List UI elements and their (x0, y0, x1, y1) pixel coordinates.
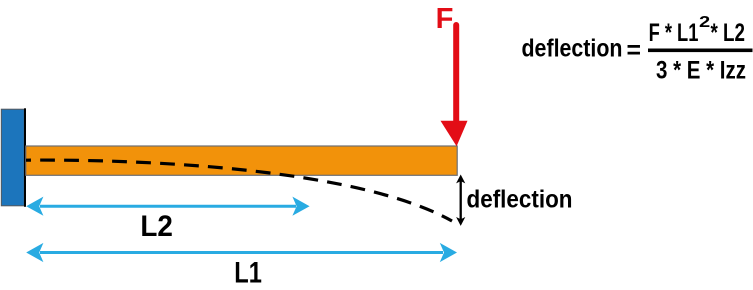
svg-text:deflection: deflection (467, 185, 573, 213)
svg-text:* L2: * L2 (711, 19, 746, 47)
wall face line (24, 108, 26, 207)
svg-text:2: 2 (699, 14, 710, 31)
svg-text:F: F (436, 3, 454, 35)
deflection double arrow (456, 175, 465, 226)
force arrow F (441, 25, 468, 146)
svg-text:L2: L2 (140, 210, 173, 243)
formula fraction bar (648, 49, 753, 53)
svg-text:3 * E * Izz: 3 * E * Izz (656, 57, 746, 85)
dimension arrow L2 (26, 197, 309, 216)
svg-text:L1: L1 (234, 257, 262, 290)
dashed deflection curve (neutral axis, deflected) (26, 160, 452, 221)
dimension arrow L1 (26, 243, 457, 262)
svg-text:deflection: deflection (522, 35, 623, 63)
svg-text:F * L1: F * L1 (649, 19, 699, 47)
formula: deflection = F*L1^2*L2 / (3*E*Izz) (522, 14, 753, 85)
wall (fixed support) (1, 109, 24, 206)
beam (26, 146, 457, 175)
svg-text:=: = (627, 37, 642, 65)
